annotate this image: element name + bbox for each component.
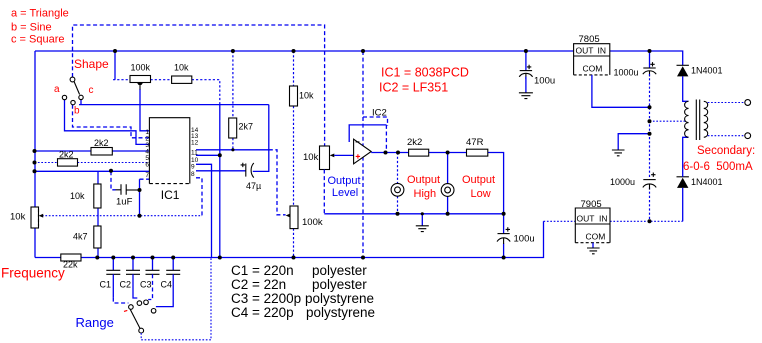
connector jack output low bbox=[441, 184, 454, 197]
svg-text:9: 9 bbox=[191, 164, 195, 171]
svg-text:1N4001: 1N4001 bbox=[691, 66, 723, 76]
svg-text:Range: Range bbox=[76, 315, 114, 330]
capacitor 100u output bbox=[497, 227, 535, 244]
wire +5V rail right of 7805 bbox=[610, 51, 683, 65]
regulator U4 7905 bbox=[575, 199, 610, 243]
switch range contact 4 bbox=[151, 309, 156, 314]
svg-text:10k: 10k bbox=[303, 152, 319, 163]
wire 2k2 left lead bbox=[35, 150, 92, 152]
wire dashed rail to 10k vertical bbox=[293, 51, 295, 86]
potentiometer 10k frequency bbox=[10, 207, 43, 228]
regulator U3 7805 bbox=[574, 34, 610, 75]
wire pot wiper to pin1 bbox=[140, 89, 149, 131]
wire dotted range pole to caps rail bbox=[141, 258, 211, 340]
wire pin6 line bbox=[35, 170, 150, 172]
op-amp U2 LF351 triangle bbox=[354, 139, 372, 164]
IC1 pin numbers right 14-8 bbox=[191, 127, 199, 178]
resistor 2k2 output bbox=[407, 137, 429, 156]
svg-text:OUT: OUT bbox=[577, 214, 595, 224]
ground mid rail bbox=[416, 214, 429, 232]
wire jack low top lead bbox=[447, 153, 449, 184]
transformer T1 secondary winding bbox=[685, 101, 689, 137]
svg-text:1N4001: 1N4001 bbox=[691, 177, 723, 187]
svg-text:OUT: OUT bbox=[576, 46, 594, 56]
svg-text:COM: COM bbox=[583, 64, 603, 74]
svg-text:7805: 7805 bbox=[579, 34, 600, 45]
wire dashed 10k right to x=219.8 bbox=[192, 80, 220, 105]
wire 7805 COM to 0V node bbox=[592, 75, 650, 107]
svg-text:8: 8 bbox=[191, 171, 195, 178]
wire jack low bottom lead bbox=[447, 196, 449, 213]
svg-text:C4 = 220p: C4 = 220p bbox=[231, 305, 294, 320]
resistor 2k2 b bbox=[58, 150, 78, 167]
capacitor 1000u negative bbox=[610, 173, 656, 190]
svg-text:Output: Output bbox=[462, 174, 495, 186]
resistor 2k2 a bbox=[91, 138, 112, 155]
wire dashed jack high bottom lead bbox=[397, 196, 399, 214]
ground 7905 bbox=[587, 248, 600, 254]
svg-text:7: 7 bbox=[145, 172, 149, 179]
svg-text:polystyrene: polystyrene bbox=[305, 291, 374, 306]
switch contact a bbox=[62, 95, 66, 99]
connector jack output high bbox=[391, 183, 404, 196]
wire left vertical bus x=35 bbox=[34, 51, 36, 258]
wire pin10 to caps rail bbox=[196, 164, 212, 257]
wire dashed pole line to pot top done above; pot bottom dashed to 0V rail bbox=[323, 170, 325, 214]
svg-text:4k7: 4k7 bbox=[73, 232, 88, 242]
wire dashed IC2 pin boundary bbox=[363, 117, 388, 126]
wire 1uF right lead bbox=[126, 189, 138, 191]
wire rail stub to 100k pot left bbox=[114, 51, 116, 80]
wire dashed pin8 bbox=[196, 178, 202, 216]
resistor 10k vertical mid bbox=[290, 86, 315, 106]
svg-text:C2: C2 bbox=[120, 280, 132, 290]
wire dashed rail to 2k7 bbox=[232, 51, 234, 118]
svg-text:C1: C1 bbox=[100, 280, 112, 290]
switch range contact 2 bbox=[137, 301, 142, 306]
svg-text:IC1 = 8038PCD: IC1 = 8038PCD bbox=[381, 66, 469, 80]
wire vertical x=219.8 pin11 bus bbox=[219, 105, 221, 258]
svg-text:10k: 10k bbox=[299, 91, 314, 101]
svg-text:a: a bbox=[54, 84, 60, 95]
svg-text:2k2: 2k2 bbox=[407, 137, 422, 148]
ground 100u psu bbox=[519, 93, 533, 99]
resistor 10k timing bbox=[70, 184, 101, 208]
svg-text:22k: 22k bbox=[63, 260, 78, 270]
wire op-amp feedback loop bbox=[349, 125, 386, 142]
wire 100u bottom to -5V rail bbox=[503, 244, 505, 258]
wire 4k7 to bottom rail bbox=[97, 248, 99, 258]
resistor 2k7 bbox=[229, 118, 253, 138]
diode D2 1N4001 bbox=[677, 177, 723, 188]
wire op-amp output line bbox=[371, 152, 408, 154]
capacitor C2 bbox=[120, 258, 141, 299]
wire dashed switch pole to output level pot bbox=[73, 25, 325, 146]
svg-text:10k: 10k bbox=[70, 191, 85, 201]
resistor 10k top bbox=[172, 63, 192, 84]
svg-text:C3: C3 bbox=[140, 280, 152, 290]
IC U1 8038 body bbox=[149, 118, 189, 202]
svg-text:c = Square: c = Square bbox=[11, 34, 65, 46]
svg-text:10k: 10k bbox=[10, 212, 26, 223]
wire dotted 2k2b to pin5 bbox=[78, 162, 150, 164]
capacitor C3 bbox=[140, 258, 160, 300]
wire diode D1 to transformer top bbox=[683, 76, 689, 101]
svg-text:polyester: polyester bbox=[312, 263, 367, 278]
switch contact b bbox=[71, 100, 75, 104]
svg-text:High: High bbox=[414, 188, 437, 200]
switch range contact 3 bbox=[144, 300, 149, 305]
svg-text:IC2 = LF351: IC2 = LF351 bbox=[379, 81, 448, 95]
wire x=268 down to 47u bbox=[253, 105, 269, 172]
capacitor C1 bbox=[100, 258, 129, 304]
svg-text:2k2: 2k2 bbox=[94, 138, 109, 148]
wire dashed -V bus x=363 bbox=[362, 51, 364, 258]
svg-text:2k2: 2k2 bbox=[59, 150, 74, 160]
diode D1 1N4001 bbox=[677, 65, 723, 76]
wire pin11 stub bbox=[196, 154, 220, 156]
svg-text:100k: 100k bbox=[302, 217, 323, 228]
wire dashed 0V bus lower bbox=[649, 187, 651, 221]
wire pin7 vertical x=139.5 bbox=[139, 179, 141, 216]
wire pin9 to 47u left bbox=[196, 170, 246, 172]
svg-text:C4: C4 bbox=[161, 280, 173, 290]
wire diode D2 to -V line bbox=[682, 188, 684, 221]
IC1 pin numbers left 1-7 bbox=[145, 129, 149, 179]
svg-text:2k7: 2k7 bbox=[239, 122, 254, 132]
svg-text:IC1: IC1 bbox=[161, 188, 180, 202]
potentiometer 100k shape adjust bbox=[130, 63, 151, 90]
svg-text:polystyrene: polystyrene bbox=[306, 305, 375, 320]
svg-text:6-0-6 500mA: 6-0-6 500mA bbox=[683, 161, 753, 173]
svg-text:b = Sine: b = Sine bbox=[11, 22, 52, 34]
svg-text:Low: Low bbox=[471, 188, 491, 200]
svg-text:C2 = 22n: C2 = 22n bbox=[231, 277, 286, 292]
svg-text:11: 11 bbox=[191, 150, 198, 157]
wire switch c to x=268 bbox=[79, 100, 269, 105]
svg-text:COM: COM bbox=[586, 232, 606, 242]
resistor 47R bbox=[466, 137, 488, 156]
wire bottom -5V rail bbox=[81, 221, 544, 257]
resistor 22k bbox=[61, 254, 81, 270]
svg-text:7905: 7905 bbox=[581, 199, 602, 210]
wire dashed pot left lead bbox=[113, 79, 130, 81]
terminal mains bottom bbox=[745, 133, 751, 139]
wire dotted primary bottom to terminal bbox=[708, 135, 745, 137]
wire dotted 0V to transformer centre tap bbox=[650, 120, 687, 122]
transformer T1 primary winding bbox=[704, 101, 708, 137]
svg-text:C1 = 220n: C1 = 220n bbox=[231, 263, 294, 278]
svg-text:100k: 100k bbox=[131, 63, 151, 73]
switch shape pole bbox=[70, 77, 80, 94]
wire dashed 10k to 100k trimmer bbox=[293, 106, 295, 206]
svg-text:Level: Level bbox=[332, 187, 358, 199]
svg-text:100u: 100u bbox=[514, 234, 535, 245]
svg-text:Secondary:: Secondary: bbox=[697, 145, 755, 157]
wire output line between resistors bbox=[429, 152, 467, 154]
svg-text:Output: Output bbox=[328, 175, 361, 187]
wire dashed 2k7 bottom bbox=[232, 138, 234, 150]
svg-text:47µ: 47µ bbox=[246, 181, 261, 191]
wire dashed pin12 to 100k wiper bbox=[269, 150, 286, 215]
wire 2k2 right lead to pin4 bbox=[112, 150, 149, 152]
wire dashed feedback to output bbox=[385, 125, 387, 153]
wire 0V to ground bbox=[618, 134, 649, 150]
svg-text:6: 6 bbox=[145, 161, 149, 168]
wire branch to 10k vertical resistor bbox=[97, 171, 99, 184]
wire dotted -5V to 7905 OUT bbox=[544, 220, 576, 222]
capacitor C4 bbox=[156, 258, 180, 307]
svg-text:12: 12 bbox=[191, 140, 199, 147]
wire dashed 100k pot to 10k bbox=[151, 79, 172, 81]
switch range pole and arm bbox=[124, 310, 144, 334]
wire bottom -5V rail left bbox=[35, 257, 61, 259]
capacitor 1000u positive bbox=[614, 51, 657, 78]
svg-text:IN: IN bbox=[599, 214, 608, 224]
svg-text:1uF: 1uF bbox=[116, 197, 133, 208]
wire dashed jack high top lead bbox=[397, 153, 399, 184]
wire dashed 100k trimmer to bottom rail bbox=[293, 229, 295, 258]
svg-text:Shape: Shape bbox=[74, 57, 109, 71]
svg-text:Frequency: Frequency bbox=[1, 265, 65, 280]
svg-text:1000u: 1000u bbox=[610, 177, 635, 187]
wire transformer bottom to diode D2 bbox=[683, 137, 689, 177]
wire dotted -V line to 7905 bbox=[610, 220, 683, 222]
svg-text:b: b bbox=[74, 106, 80, 117]
svg-text:10k: 10k bbox=[174, 63, 189, 73]
wire switch a to pin3 bbox=[65, 100, 150, 145]
wire pot wiper to op-amp bbox=[334, 154, 353, 156]
transformer T1 core bbox=[696, 100, 699, 141]
wire 7905 COM to ground bbox=[592, 243, 594, 248]
svg-text:47R: 47R bbox=[466, 137, 484, 148]
resistor 4k7 bbox=[73, 226, 101, 248]
svg-text:a = Triangle: a = Triangle bbox=[11, 8, 69, 20]
switch range contact 1 bbox=[129, 305, 134, 310]
capacitor 100u psu bbox=[519, 51, 555, 93]
trimmer 100k sine distortion bbox=[286, 206, 323, 229]
wire 10k vert to 4k7 bbox=[97, 208, 99, 226]
wire pin12 line bbox=[196, 149, 269, 151]
wire after 47R down to 100u bbox=[488, 153, 504, 234]
svg-text:1000u: 1000u bbox=[614, 68, 639, 78]
wire dashed 0V bus x=649.5 bbox=[649, 74, 651, 180]
wire dotted freq wiper line bbox=[42, 215, 202, 217]
svg-text:C3 = 2200p: C3 = 2200p bbox=[231, 291, 301, 306]
wire dashed to 1uF left bbox=[111, 171, 116, 190]
wire 0V mid rail bbox=[324, 213, 503, 215]
wire dashed pin7 hook bbox=[140, 178, 150, 180]
wire dotted 2k2b left lead bbox=[35, 162, 58, 164]
wire dotted primary top to terminal bbox=[708, 102, 745, 104]
capacitor 1uF bbox=[116, 184, 133, 207]
potentiometer 10k output level bbox=[303, 146, 334, 170]
svg-text:c: c bbox=[89, 85, 94, 96]
terminal mains top bbox=[745, 100, 751, 106]
switch contact c bbox=[79, 95, 83, 99]
svg-text:100u: 100u bbox=[534, 76, 555, 87]
svg-text:IN: IN bbox=[598, 46, 607, 56]
ground psu mid bbox=[612, 150, 625, 156]
wire +5V top rail bbox=[35, 50, 574, 52]
svg-text:Output: Output bbox=[407, 174, 440, 186]
capacitor 47u bbox=[241, 163, 262, 191]
svg-text:polyester: polyester bbox=[312, 277, 367, 292]
wire dashed switch b to pin2 bbox=[73, 105, 150, 138]
